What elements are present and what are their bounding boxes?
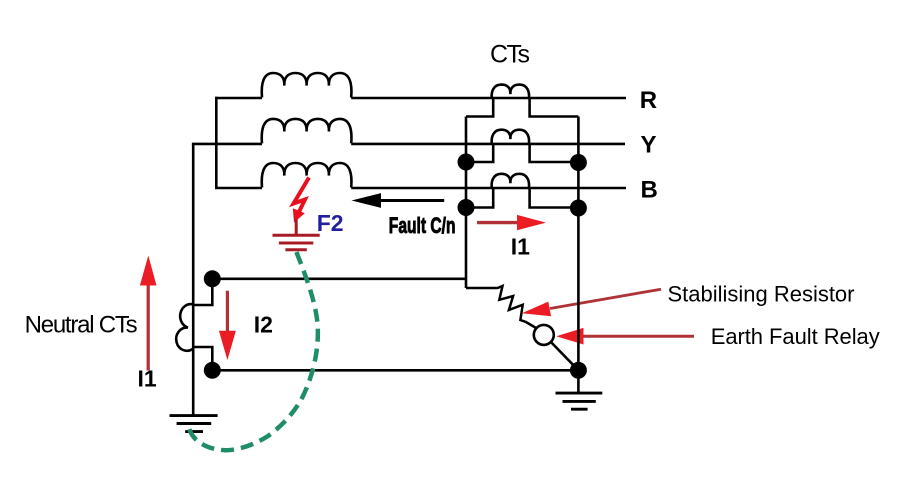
resistor stabilising (zigzag) xyxy=(466,286,526,322)
node right bus / Y CT junction xyxy=(570,154,587,171)
winding W1 (R phase primary) xyxy=(262,73,352,98)
wire left CT bus xyxy=(465,117,468,289)
node left bus / Y CT junction xyxy=(458,154,475,171)
ground neutral xyxy=(170,416,218,432)
wire neutral conductor xyxy=(192,144,195,416)
arrow fault C/n xyxy=(352,193,445,208)
arrow I1 (CT secondary current) xyxy=(477,215,546,230)
svg-text:CTs: CTs xyxy=(490,41,530,69)
wire relay circuit top xyxy=(212,277,466,280)
node left bus / B CT junction xyxy=(458,199,475,216)
svg-text:R: R xyxy=(640,87,657,114)
svg-text:Earth Fault Relay: Earth Fault Relay xyxy=(711,324,880,349)
ground fault (red) xyxy=(273,219,320,250)
wire star-point vertical xyxy=(215,97,218,189)
svg-text:I1: I1 xyxy=(138,365,157,391)
CT Y phase xyxy=(492,130,529,144)
wire neutral CT secondary bracket top xyxy=(193,279,212,305)
svg-text:B: B xyxy=(641,177,658,204)
neutral CT xyxy=(176,304,193,351)
wire CT R secondary left xyxy=(466,99,493,117)
svg-text:Fault C/n: Fault C/n xyxy=(389,215,456,239)
wire B phase line xyxy=(351,187,626,190)
wire CT Y secondary right xyxy=(530,144,579,162)
wire W3 left lead xyxy=(215,187,262,190)
relay coil circle (earth fault relay) xyxy=(534,325,554,345)
svg-text:I2: I2 xyxy=(254,312,273,338)
wire relay circuit bottom return xyxy=(212,369,578,372)
node neutral CT top terminal xyxy=(204,270,221,287)
svg-text:I1: I1 xyxy=(511,234,530,260)
svg-text:Neutral CTs: Neutral CTs xyxy=(25,311,138,338)
wire W2 left lead to neutral xyxy=(192,143,262,146)
wire neutral CT secondary bracket bottom xyxy=(193,347,212,370)
wire right CT bus xyxy=(577,117,580,394)
wire W1 left lead xyxy=(215,97,262,100)
arrow I2 down (neutral CT secondary current) xyxy=(219,291,236,360)
svg-text:Stabilising Resistor: Stabilising Resistor xyxy=(668,282,855,307)
CT B phase xyxy=(492,174,529,188)
wire Y phase line xyxy=(351,143,625,146)
wire CT Y secondary left xyxy=(466,144,493,162)
ground relay xyxy=(556,393,603,409)
arrow annotation earth fault relay xyxy=(556,328,694,345)
fault bolt F2 xyxy=(293,178,309,223)
arrow I1 up (neutral primary current) xyxy=(140,256,157,371)
CT R phase xyxy=(492,85,529,99)
node relay / bus junction xyxy=(570,362,587,379)
wire resistor to relay xyxy=(526,322,537,328)
node right bus / B CT junction xyxy=(570,200,587,217)
wire CT B secondary right xyxy=(530,188,579,208)
winding W2 (Y phase primary) xyxy=(262,119,352,143)
wire R phase line xyxy=(351,97,626,100)
winding W3 (B phase primary) xyxy=(262,163,352,188)
svg-text:Y: Y xyxy=(641,131,657,158)
wire CT B secondary left xyxy=(466,188,493,208)
svg-text:F2: F2 xyxy=(317,210,344,236)
wire CT R secondary right xyxy=(530,99,579,117)
arrow annotation stabilising resistor xyxy=(522,289,661,316)
wire relay to bus node xyxy=(551,342,579,370)
fault current path (green dashed) xyxy=(188,252,317,450)
node neutral CT bottom terminal xyxy=(204,362,221,379)
